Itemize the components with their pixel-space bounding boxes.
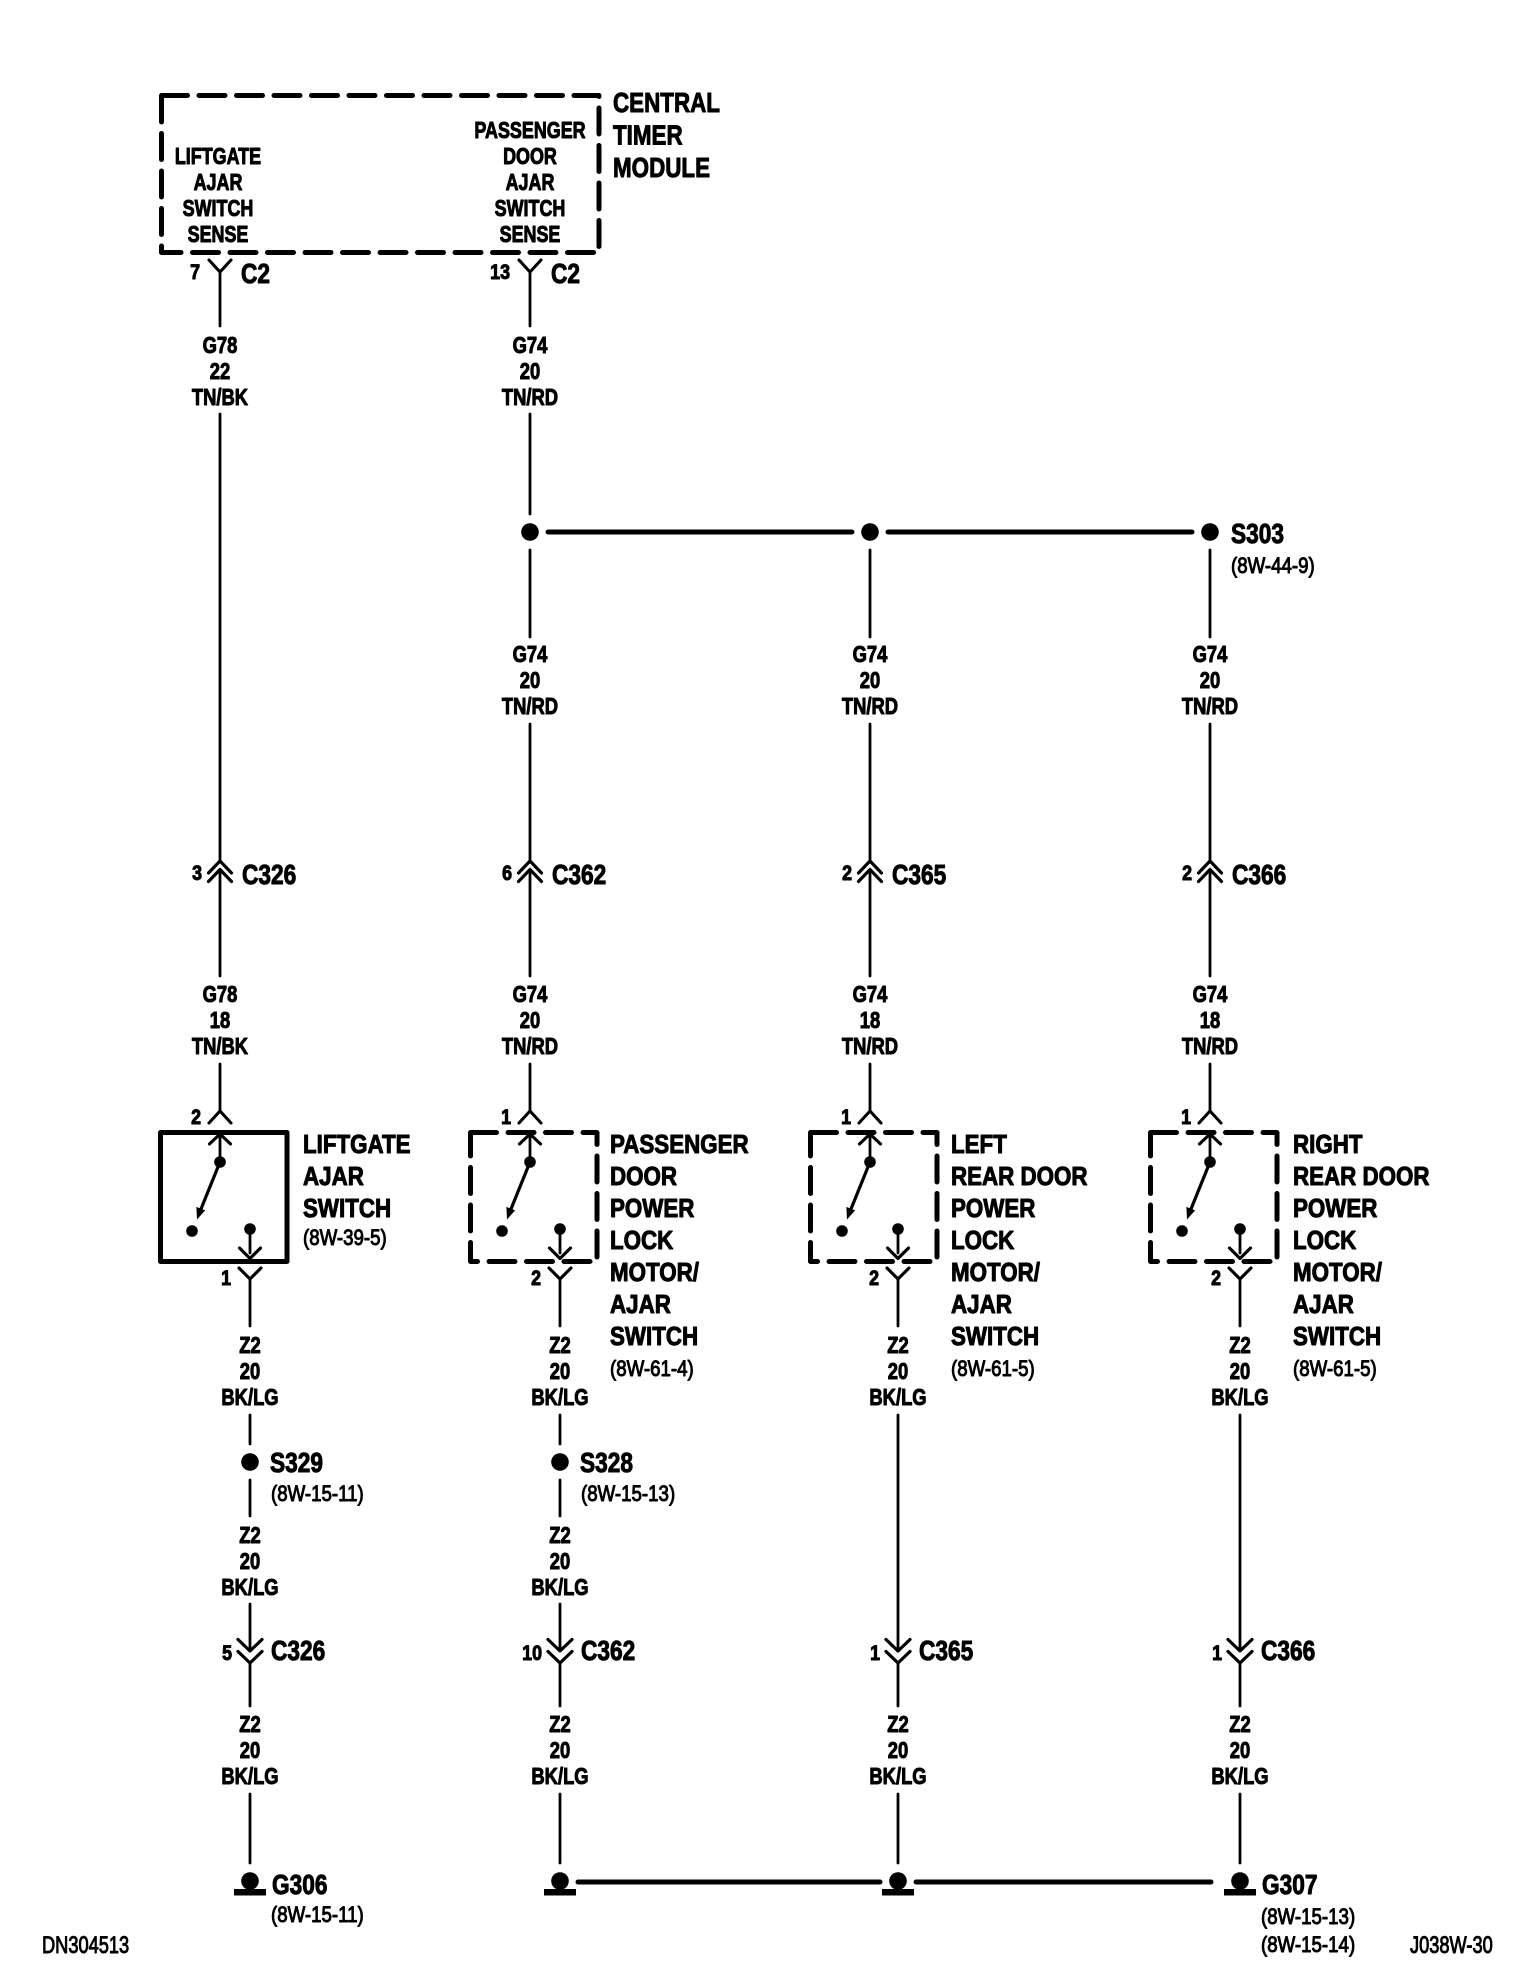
svg-text:1: 1 [221, 1267, 231, 1291]
svg-text:POWER: POWER [951, 1194, 1035, 1223]
svg-text:20: 20 [520, 359, 540, 384]
svg-text:SWITCH: SWITCH [951, 1322, 1039, 1351]
svg-text:6: 6 [502, 862, 512, 886]
svg-text:22: 22 [210, 359, 230, 384]
svg-text:2: 2 [531, 1267, 541, 1291]
svg-text:LEFT: LEFT [951, 1130, 1007, 1159]
svg-text:SWITCH: SWITCH [610, 1322, 698, 1351]
svg-text:SWITCH: SWITCH [303, 1194, 391, 1223]
svg-text:G74: G74 [513, 642, 548, 667]
svg-text:SWITCH: SWITCH [183, 196, 254, 222]
svg-text:C2: C2 [241, 259, 270, 290]
svg-text:18: 18 [1200, 1008, 1220, 1033]
svg-text:LOCK: LOCK [1293, 1226, 1357, 1255]
svg-text:(8W-15-14): (8W-15-14) [1261, 1934, 1355, 1958]
svg-text:G78: G78 [203, 982, 238, 1007]
svg-text:20: 20 [888, 1738, 908, 1763]
svg-text:G306: G306 [272, 1870, 327, 1901]
svg-text:(8W-44-9): (8W-44-9) [1231, 555, 1315, 579]
svg-text:20: 20 [550, 1359, 570, 1384]
svg-text:TN/RD: TN/RD [842, 694, 898, 719]
svg-text:18: 18 [210, 1008, 230, 1033]
svg-text:TN/BK: TN/BK [192, 385, 248, 410]
svg-text:2: 2 [191, 1106, 201, 1130]
svg-text:1: 1 [1181, 1106, 1191, 1130]
svg-text:LOCK: LOCK [951, 1226, 1015, 1255]
svg-text:1: 1 [1212, 1642, 1222, 1666]
svg-text:Z2: Z2 [549, 1523, 570, 1548]
svg-text:20: 20 [1230, 1359, 1250, 1384]
svg-text:AJAR: AJAR [194, 170, 243, 196]
svg-text:20: 20 [520, 668, 540, 693]
svg-text:AJAR: AJAR [951, 1290, 1012, 1319]
svg-text:1: 1 [501, 1106, 511, 1130]
svg-text:C362: C362 [581, 1636, 635, 1667]
svg-text:DOOR: DOOR [503, 144, 557, 170]
svg-text:BK/LG: BK/LG [1211, 1385, 1268, 1410]
svg-text:20: 20 [888, 1359, 908, 1384]
svg-text:Z2: Z2 [1229, 1333, 1250, 1358]
svg-text:(8W-61-5): (8W-61-5) [1293, 1358, 1377, 1382]
svg-text:Z2: Z2 [239, 1523, 260, 1548]
svg-text:MOTOR/: MOTOR/ [610, 1258, 699, 1287]
svg-text:BK/LG: BK/LG [221, 1764, 278, 1789]
svg-text:S328: S328 [580, 1448, 633, 1479]
svg-text:Z2: Z2 [1229, 1712, 1250, 1737]
svg-text:S329: S329 [270, 1448, 323, 1479]
svg-text:C365: C365 [919, 1636, 973, 1667]
svg-text:Z2: Z2 [239, 1712, 260, 1737]
svg-text:CENTRAL: CENTRAL [613, 88, 720, 119]
svg-text:C365: C365 [892, 860, 946, 891]
svg-text:C326: C326 [242, 860, 296, 891]
svg-text:DN304513: DN304513 [42, 1932, 129, 1959]
svg-text:18: 18 [860, 1008, 880, 1033]
svg-text:1: 1 [870, 1642, 880, 1666]
svg-text:TIMER: TIMER [613, 120, 683, 151]
svg-text:G78: G78 [203, 333, 238, 358]
svg-text:C362: C362 [552, 860, 606, 891]
svg-text:REAR DOOR: REAR DOOR [951, 1162, 1088, 1191]
svg-text:10: 10 [522, 1642, 542, 1666]
svg-text:G74: G74 [1193, 982, 1228, 1007]
svg-text:Z2: Z2 [887, 1333, 908, 1358]
svg-text:5: 5 [222, 1642, 232, 1666]
svg-text:SENSE: SENSE [188, 222, 249, 248]
svg-text:TN/RD: TN/RD [502, 385, 558, 410]
svg-text:AJAR: AJAR [303, 1162, 364, 1191]
svg-text:BK/LG: BK/LG [1211, 1764, 1268, 1789]
svg-text:G74: G74 [853, 642, 888, 667]
svg-text:TN/RD: TN/RD [842, 1034, 898, 1059]
svg-text:POWER: POWER [1293, 1194, 1377, 1223]
svg-text:1: 1 [841, 1106, 851, 1130]
svg-text:POWER: POWER [610, 1194, 694, 1223]
svg-text:MODULE: MODULE [613, 153, 710, 184]
svg-text:TN/RD: TN/RD [1182, 1034, 1238, 1059]
svg-text:Z2: Z2 [549, 1333, 570, 1358]
svg-text:TN/BK: TN/BK [192, 1034, 248, 1059]
svg-text:20: 20 [860, 668, 880, 693]
svg-text:G307: G307 [1262, 1870, 1317, 1901]
svg-text:TN/RD: TN/RD [502, 694, 558, 719]
svg-text:REAR DOOR: REAR DOOR [1293, 1162, 1430, 1191]
svg-text:Z2: Z2 [239, 1333, 260, 1358]
svg-text:TN/RD: TN/RD [502, 1034, 558, 1059]
svg-text:LIFTGATE: LIFTGATE [303, 1130, 411, 1159]
svg-text:(8W-61-4): (8W-61-4) [610, 1358, 694, 1382]
svg-text:LIFTGATE: LIFTGATE [175, 144, 261, 170]
svg-text:BK/LG: BK/LG [531, 1385, 588, 1410]
svg-text:SWITCH: SWITCH [495, 196, 566, 222]
svg-text:3: 3 [192, 862, 202, 886]
svg-text:C2: C2 [551, 259, 580, 290]
svg-text:SENSE: SENSE [500, 222, 561, 248]
svg-text:20: 20 [550, 1738, 570, 1763]
svg-text:PASSENGER: PASSENGER [474, 118, 585, 144]
svg-text:20: 20 [520, 1008, 540, 1033]
svg-text:(8W-15-13): (8W-15-13) [1261, 1906, 1355, 1930]
svg-text:2: 2 [869, 1267, 879, 1291]
svg-text:RIGHT: RIGHT [1293, 1130, 1363, 1159]
svg-text:PASSENGER: PASSENGER [610, 1130, 749, 1159]
svg-text:(8W-15-11): (8W-15-11) [271, 1904, 364, 1928]
svg-text:2: 2 [1211, 1267, 1221, 1291]
svg-text:13: 13 [490, 261, 510, 285]
svg-text:20: 20 [240, 1738, 260, 1763]
svg-text:7: 7 [190, 261, 200, 285]
svg-text:AJAR: AJAR [506, 170, 555, 196]
svg-text:S303: S303 [1231, 519, 1284, 550]
svg-text:G74: G74 [513, 333, 548, 358]
svg-text:2: 2 [1182, 862, 1192, 886]
svg-text:AJAR: AJAR [1293, 1290, 1354, 1319]
svg-text:20: 20 [240, 1359, 260, 1384]
svg-text:AJAR: AJAR [610, 1290, 671, 1319]
svg-text:BK/LG: BK/LG [531, 1575, 588, 1600]
svg-text:20: 20 [1200, 668, 1220, 693]
svg-text:Z2: Z2 [549, 1712, 570, 1737]
svg-text:20: 20 [240, 1549, 260, 1574]
svg-text:SWITCH: SWITCH [1293, 1322, 1381, 1351]
svg-text:G74: G74 [1193, 642, 1228, 667]
svg-text:MOTOR/: MOTOR/ [1293, 1258, 1382, 1287]
svg-text:Z2: Z2 [887, 1712, 908, 1737]
svg-text:BK/LG: BK/LG [869, 1385, 926, 1410]
svg-text:BK/LG: BK/LG [869, 1764, 926, 1789]
svg-text:G74: G74 [853, 982, 888, 1007]
svg-text:C366: C366 [1232, 860, 1286, 891]
svg-text:G74: G74 [513, 982, 548, 1007]
svg-text:TN/RD: TN/RD [1182, 694, 1238, 719]
svg-text:20: 20 [550, 1549, 570, 1574]
svg-text:C326: C326 [271, 1636, 325, 1667]
svg-text:C366: C366 [1261, 1636, 1315, 1667]
svg-text:MOTOR/: MOTOR/ [951, 1258, 1040, 1287]
svg-text:(8W-15-11): (8W-15-11) [271, 1483, 364, 1507]
svg-text:(8W-39-5): (8W-39-5) [303, 1227, 387, 1251]
svg-text:(8W-15-13): (8W-15-13) [581, 1483, 675, 1507]
svg-text:BK/LG: BK/LG [221, 1575, 278, 1600]
svg-text:J038W-30: J038W-30 [1410, 1932, 1493, 1959]
svg-text:BK/LG: BK/LG [531, 1764, 588, 1789]
svg-text:(8W-61-5): (8W-61-5) [951, 1358, 1035, 1382]
svg-text:20: 20 [1230, 1738, 1250, 1763]
svg-text:DOOR: DOOR [610, 1162, 677, 1191]
svg-text:LOCK: LOCK [610, 1226, 674, 1255]
svg-text:BK/LG: BK/LG [221, 1385, 278, 1410]
svg-text:2: 2 [842, 862, 852, 886]
